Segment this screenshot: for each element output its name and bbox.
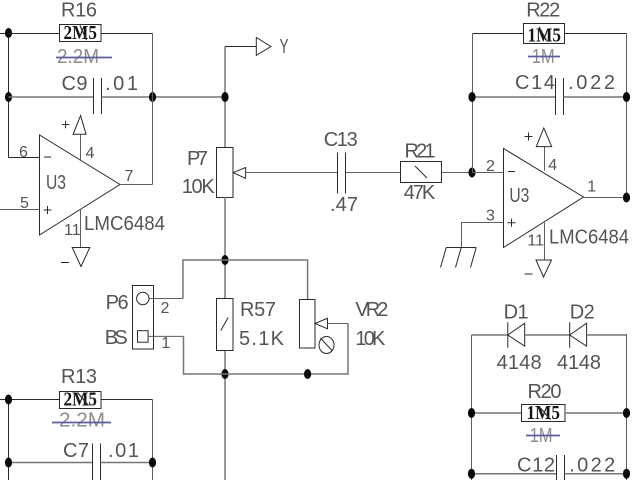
node junction dot A1 bbox=[5, 28, 12, 38]
pin 3 wire bbox=[462, 223, 504, 248]
wire R13 right bbox=[101, 399, 153, 401]
svg-text:D2: D2 bbox=[570, 302, 595, 324]
wire mid rail P7 to R57 bbox=[224, 197, 226, 298]
wire R16 right bbox=[101, 33, 153, 35]
svg-text:7: 7 bbox=[125, 168, 134, 185]
pin 11 stem bbox=[80, 209, 82, 247]
R13 value tick mark bbox=[78, 393, 89, 406]
resistor R20 body bbox=[522, 405, 566, 422]
node junction dot A2 bbox=[5, 92, 12, 102]
svg-text:2M5: 2M5 bbox=[64, 22, 98, 44]
svg-text:P7: P7 bbox=[187, 148, 208, 170]
svg-text:R13: R13 bbox=[61, 366, 97, 388]
svg-text:.01: .01 bbox=[108, 440, 139, 462]
svg-text:P6: P6 bbox=[106, 292, 129, 314]
svg-text:6: 6 bbox=[19, 144, 28, 161]
wire right rail bottom-left bbox=[152, 400, 154, 480]
svg-text:3: 3 bbox=[486, 208, 495, 225]
ground symbol bbox=[441, 248, 477, 268]
connector P6 body bbox=[133, 286, 154, 350]
pin 4 stem bbox=[544, 147, 546, 171]
trimmer VR2 wiper arrow bbox=[315, 318, 328, 329]
wire D row right bbox=[587, 334, 627, 336]
wire C12 right bbox=[565, 473, 627, 475]
wire C7 left bbox=[9, 462, 93, 464]
svg-text:U3: U3 bbox=[509, 185, 529, 207]
svg-text:R20: R20 bbox=[528, 381, 562, 403]
minus sign pin2 bbox=[508, 171, 515, 173]
svg-text:U3: U3 bbox=[46, 172, 66, 194]
capacitor C12 plates bbox=[556, 455, 558, 480]
svg-text:C14: C14 bbox=[515, 72, 555, 94]
svg-text:C13: C13 bbox=[324, 129, 358, 151]
capacitor C9 plates bbox=[93, 78, 95, 114]
connector P6 pin2 circle bbox=[137, 292, 149, 304]
wire C7 right bbox=[101, 462, 153, 464]
resistor R57 body bbox=[217, 299, 234, 351]
strikethrough line bbox=[56, 57, 112, 59]
strikethrough line bbox=[52, 422, 111, 424]
resistor R21 body bbox=[401, 162, 442, 183]
wire section bottom bbox=[184, 324, 349, 375]
node junction dot mid bbox=[221, 92, 228, 102]
wire wiper to C13 bbox=[246, 172, 338, 174]
wire right rail bottom-right bbox=[626, 334, 628, 480]
wire left rail bottom-right bbox=[471, 335, 473, 480]
node junction dot (626.9,97) bbox=[623, 92, 630, 102]
pin 5 wire bbox=[0, 209, 40, 211]
wire R22 left bbox=[473, 33, 524, 35]
wire left rail bottom-left bbox=[8, 400, 10, 480]
capacitor C13 plates bbox=[337, 153, 339, 194]
wire section top bbox=[183, 260, 308, 299]
wire C9 right bbox=[102, 96, 153, 98]
node junction dot (471,473.7) bbox=[468, 469, 475, 479]
strikethrough line bbox=[528, 56, 560, 58]
svg-text:4148: 4148 bbox=[497, 352, 542, 374]
node junction dot (8.4,462.4) bbox=[5, 458, 12, 468]
svg-text:2: 2 bbox=[161, 300, 170, 317]
wire R22 right bbox=[565, 33, 627, 35]
wire R13 left bbox=[9, 399, 60, 401]
node junction dot (225,260) bbox=[221, 255, 228, 265]
pin 1 wire bbox=[584, 197, 627, 199]
wire D row left bbox=[472, 334, 508, 336]
pin 6 wire bbox=[9, 157, 40, 159]
resistor R16 body bbox=[60, 25, 102, 42]
wire right rail bbox=[152, 34, 154, 185]
node junction dot (472,97) bbox=[468, 92, 475, 102]
trimmer VR2 screw symbol bbox=[319, 337, 334, 354]
minus sign V- bbox=[525, 273, 533, 275]
node junction dot (225,374) bbox=[221, 369, 228, 379]
svg-text:D1: D1 bbox=[504, 302, 529, 324]
diode D1 bbox=[508, 322, 525, 347]
wire R16 left bbox=[9, 33, 60, 35]
wire R20 right bbox=[565, 412, 627, 414]
Y output arrow bbox=[256, 38, 271, 56]
minus sign V- bbox=[61, 262, 69, 264]
svg-text:47K: 47K bbox=[404, 182, 436, 204]
svg-text:.01: .01 bbox=[105, 73, 138, 95]
wire R21 to node bbox=[441, 172, 472, 174]
wire D1 to D2 bbox=[525, 334, 570, 336]
wire left rail top-right section bbox=[472, 34, 474, 98]
power V+ arrow (left opamp) bbox=[73, 116, 86, 135]
node junction dot (471,413) bbox=[468, 408, 475, 418]
plus sign pin5 bbox=[44, 206, 52, 214]
svg-text:1: 1 bbox=[161, 335, 170, 352]
wire stub left of node bbox=[0, 33, 9, 35]
wire stub left of node bbox=[0, 399, 9, 401]
svg-text:10K: 10K bbox=[355, 328, 386, 350]
node junction dot (626.5,473.7) bbox=[623, 469, 630, 479]
wire rail C14 to R21 node bbox=[472, 97, 474, 173]
plus sign pin3 bbox=[508, 219, 516, 227]
svg-text:2.2M: 2.2M bbox=[59, 410, 105, 432]
svg-text:10K: 10K bbox=[182, 176, 216, 198]
wire to mid rail bbox=[153, 96, 226, 98]
svg-text:VR2: VR2 bbox=[355, 299, 388, 321]
svg-text:R22: R22 bbox=[526, 0, 560, 21]
svg-text:4: 4 bbox=[86, 145, 95, 162]
plus sign V+ bbox=[62, 121, 70, 129]
node junction dot (472,172.5) bbox=[468, 168, 475, 178]
capacitor C14 plates bbox=[555, 78, 557, 115]
wire left rail bbox=[8, 34, 10, 158]
resistor R21 slash bbox=[415, 166, 427, 178]
svg-text:4: 4 bbox=[548, 157, 557, 174]
node junction dot (626.5,413) bbox=[623, 408, 630, 418]
svg-text:LMC6484: LMC6484 bbox=[549, 227, 629, 249]
R22 value tick mark bbox=[539, 27, 547, 41]
power V+ arrow (right opamp) bbox=[536, 128, 551, 147]
potentiometer P7 body bbox=[217, 148, 234, 198]
op-amp U3 (right) triangle bbox=[504, 149, 584, 248]
resistor R57 slash bbox=[221, 318, 229, 331]
power V- arrow (right opamp) bbox=[536, 260, 552, 277]
wire mid rail upper bbox=[224, 47, 226, 148]
svg-text:BS: BS bbox=[105, 327, 128, 349]
pin 7 wire bbox=[120, 184, 153, 186]
svg-text:R57: R57 bbox=[240, 299, 276, 321]
svg-text:R21: R21 bbox=[405, 141, 436, 163]
svg-text:.47: .47 bbox=[330, 194, 358, 216]
svg-text:5.1K: 5.1K bbox=[239, 328, 285, 350]
node junction dot (152.7,462.4) bbox=[149, 458, 156, 468]
wire R20 left bbox=[472, 412, 522, 414]
wire VR2 wiper down bbox=[328, 323, 349, 325]
node junction dot A3 bbox=[149, 92, 156, 102]
op-amp U3 (left) triangle bbox=[40, 135, 121, 235]
R20 value tick mark bbox=[539, 407, 551, 420]
wire C9 left bbox=[9, 96, 94, 98]
R16 value tick mark bbox=[80, 26, 87, 41]
wire right rail top-right section bbox=[626, 34, 628, 198]
capacitor C7 plates bbox=[92, 444, 94, 480]
wire C13 to R21 bbox=[346, 172, 401, 174]
pin 1 wire bbox=[148, 335, 183, 337]
svg-text:11: 11 bbox=[527, 233, 544, 250]
plus sign V+ bbox=[525, 133, 533, 141]
wire C14 right bbox=[564, 96, 627, 98]
pin 4 stem bbox=[80, 134, 82, 160]
pin 11 stem bbox=[544, 223, 546, 261]
node junction dot (8.4,399.7) bbox=[5, 395, 12, 405]
svg-text:R16: R16 bbox=[61, 0, 97, 22]
wire node to pin2 bbox=[472, 172, 504, 174]
svg-text:11: 11 bbox=[64, 222, 81, 239]
trimmer VR2 body bbox=[300, 300, 316, 349]
minus sign pin6 bbox=[44, 156, 51, 158]
diode D2 bbox=[570, 322, 587, 347]
potentiometer P7 wiper arrow bbox=[233, 168, 246, 179]
node junction dot (307,374) bbox=[304, 369, 311, 379]
svg-text:1M5: 1M5 bbox=[527, 402, 561, 424]
node junction dot (626.9,197.5) bbox=[623, 193, 630, 203]
svg-text:1: 1 bbox=[587, 179, 596, 196]
svg-text:2: 2 bbox=[486, 158, 495, 175]
svg-text:5: 5 bbox=[20, 195, 29, 212]
resistor R13 body bbox=[60, 392, 102, 409]
wire C14 left bbox=[473, 96, 556, 98]
pin 2 wire bbox=[149, 298, 183, 300]
resistor R22 body bbox=[524, 24, 565, 44]
wire mid rail lower bbox=[224, 350, 226, 480]
svg-text:C9: C9 bbox=[62, 73, 88, 95]
wire Y stub bbox=[225, 46, 256, 48]
power V- arrow (left opamp) bbox=[72, 248, 90, 267]
svg-text:C7: C7 bbox=[63, 440, 89, 462]
svg-text:4148: 4148 bbox=[557, 352, 601, 374]
connector P6 pin1 square bbox=[138, 331, 149, 343]
strikethrough line bbox=[526, 435, 560, 437]
wire C12 left bbox=[472, 473, 557, 475]
svg-text:2M5: 2M5 bbox=[64, 389, 98, 411]
svg-text:Y: Y bbox=[280, 36, 289, 58]
svg-text:LMC6484: LMC6484 bbox=[84, 213, 165, 235]
